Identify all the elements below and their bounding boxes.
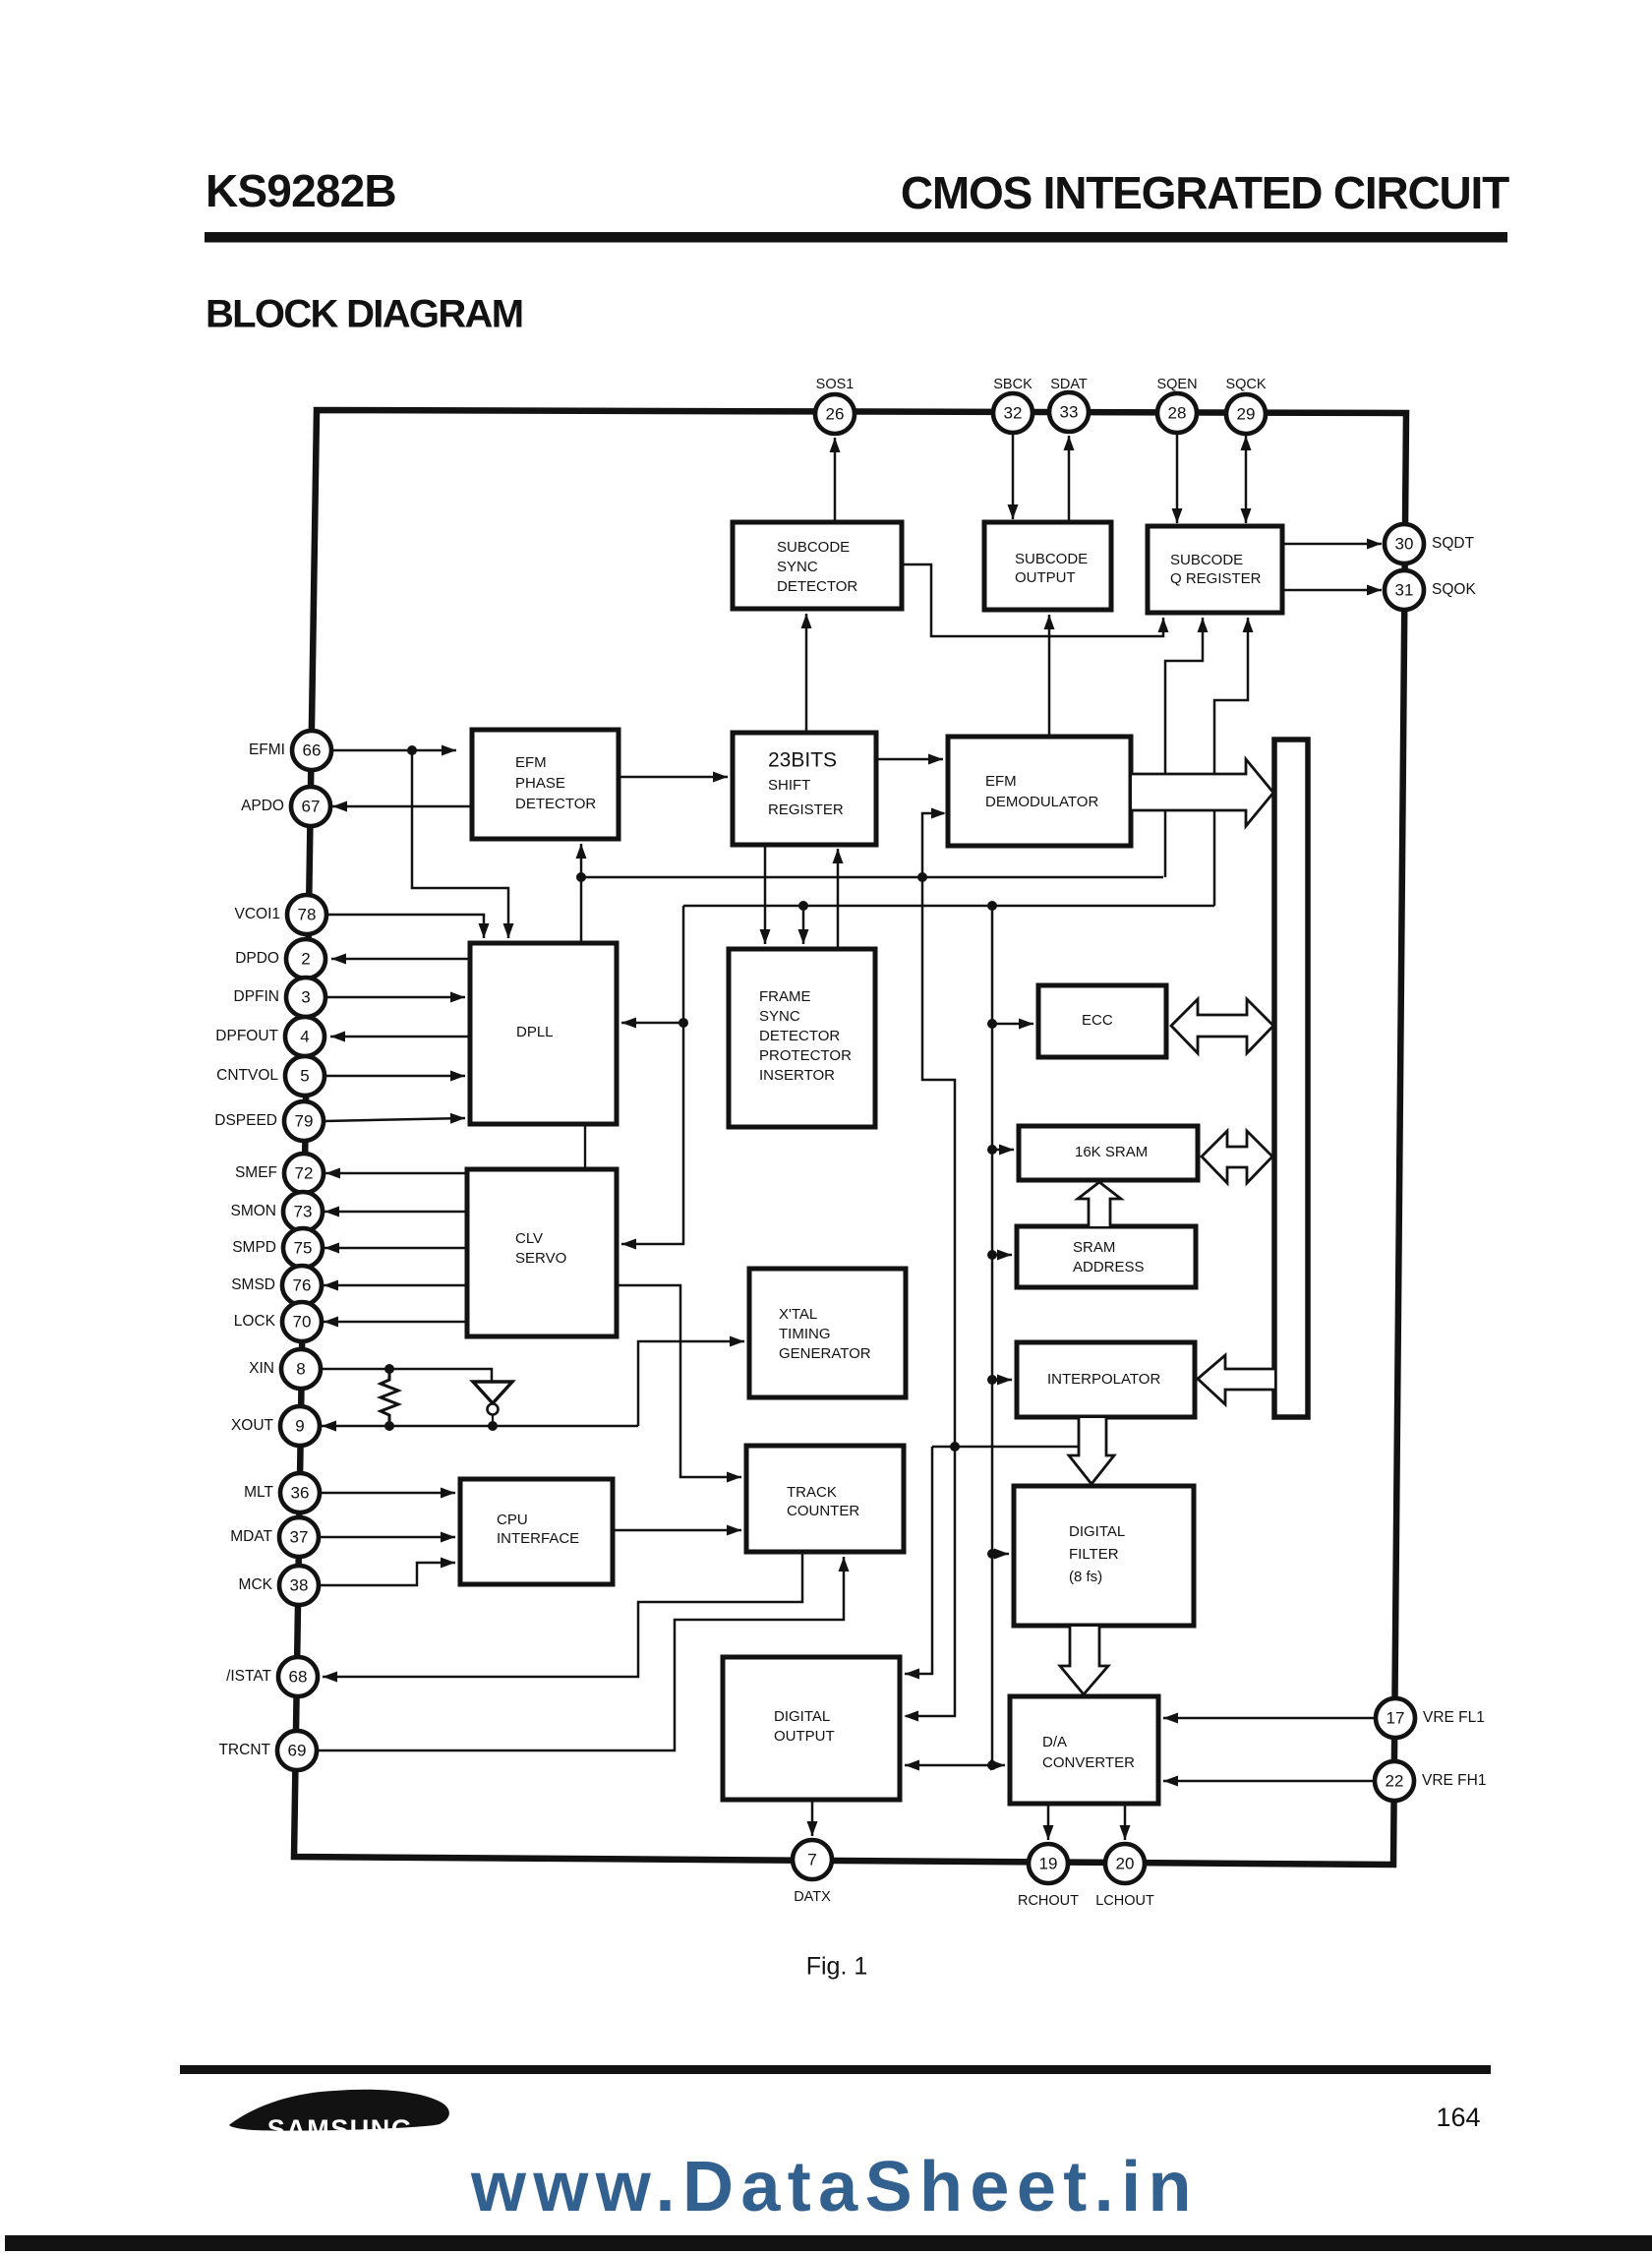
svg-text:4: 4 — [300, 1027, 309, 1045]
wire pin 5 CNTVOL to DPLL — [325, 1071, 465, 1082]
svg-text:XOUT: XOUT — [231, 1417, 274, 1434]
svg-text:VRE FL1: VRE FL1 — [1423, 1709, 1485, 1726]
svg-text:28: 28 — [1168, 403, 1187, 422]
pin 4 DPFOUT — [285, 1017, 324, 1056]
svg-text:(8 fs): (8 fs) — [1069, 1569, 1102, 1585]
wire net A horizontal (phase det / demod / Q reg) — [581, 872, 1163, 882]
wire net B to frame sync detector — [798, 906, 809, 944]
svg-text:CPU: CPU — [497, 1512, 528, 1528]
svg-text:DPLL: DPLL — [516, 1024, 554, 1040]
pin 26 SOS1 — [815, 394, 855, 434]
wire net B branch to DPLL right — [621, 1018, 683, 1029]
pin 29 SQCK — [1226, 394, 1266, 434]
open arrow: 16K SRAM to data bus (bidirectional) — [1202, 1131, 1272, 1183]
inverter U20 (crystal oscillator) — [473, 1382, 512, 1426]
svg-text:OUTPUT: OUTPUT — [774, 1728, 835, 1745]
svg-text:DPFOUT: DPFOUT — [215, 1028, 278, 1044]
wire net B horizontal (frame sync / sram column) — [683, 901, 1214, 911]
wire column to digital filter — [992, 1549, 1009, 1560]
svg-text:EFM: EFM — [985, 773, 1017, 790]
svg-text:DIGITAL: DIGITAL — [774, 1708, 830, 1725]
wire 23bits to frame sync detector — [760, 845, 771, 944]
pin 66 EFMI — [292, 731, 331, 770]
wire sram column vertical net — [987, 906, 997, 1770]
wire pin 22 VRE FH1 to D/A converter — [1163, 1776, 1374, 1787]
wire digital output to pin 7 DATX — [807, 1800, 818, 1836]
wire column to 16K SRAM — [992, 1145, 1014, 1156]
svg-text:SUBCODE: SUBCODE — [777, 539, 850, 556]
svg-text:23BITS: 23BITS — [768, 749, 837, 772]
block U4 EFM PHASE DETECTOR — [472, 730, 619, 839]
pin 8 XIN — [281, 1349, 321, 1389]
svg-text:SOS1: SOS1 — [816, 377, 855, 392]
svg-text:9: 9 — [295, 1416, 304, 1435]
svg-text:MLT: MLT — [244, 1484, 273, 1501]
svg-text:BLOCK DIAGRAM: BLOCK DIAGRAM — [206, 293, 522, 336]
svg-text:SDAT: SDAT — [1050, 377, 1088, 392]
svg-text:32: 32 — [1004, 403, 1023, 422]
pin 78 VCOI1 — [287, 895, 326, 934]
wire pin 36 MLT to CPU interface — [320, 1488, 455, 1499]
pin 2 DPDO — [286, 939, 325, 979]
svg-text:2: 2 — [301, 949, 310, 968]
wire bus node to Q register (via riser) — [1165, 618, 1209, 877]
wire D/A converter to pin 19 RCHOUT — [1043, 1804, 1054, 1840]
wire pin 79 DSPEED to DPLL — [324, 1113, 465, 1124]
wire EFMI branch to DPLL — [412, 750, 514, 938]
pin 3 DPFIN — [286, 978, 325, 1017]
block U18 DIGITAL FILTER (8 fs) — [1014, 1486, 1194, 1626]
wire 23bits shift register to EFM demodulator — [876, 754, 943, 765]
svg-text:68: 68 — [289, 1667, 308, 1686]
wire DPLL to pin 2 DPDO — [331, 954, 470, 965]
pin 9 XOUT — [280, 1406, 320, 1446]
pin 75 SMPD — [283, 1228, 323, 1268]
svg-text:Q REGISTER: Q REGISTER — [1170, 570, 1262, 587]
svg-text:KS9282B: KS9282B — [206, 165, 396, 216]
block U6 EFM DEMODULATOR — [948, 737, 1131, 846]
svg-text:73: 73 — [294, 1202, 313, 1220]
pin 70 LOCK — [282, 1302, 322, 1341]
svg-text:ADDRESS: ADDRESS — [1073, 1259, 1145, 1275]
pin 38 MCK — [279, 1566, 319, 1605]
block U2 SUBCODE OUTPUT — [984, 522, 1111, 610]
svg-text:CNTVOL: CNTVOL — [216, 1067, 278, 1084]
svg-text:17: 17 — [1386, 1708, 1405, 1727]
svg-text:PROTECTOR: PROTECTOR — [759, 1047, 852, 1064]
wire CLV servo output to track counter — [617, 1285, 741, 1483]
svg-text:DPFIN: DPFIN — [234, 988, 280, 1005]
pin 68 /ISTAT — [278, 1657, 318, 1696]
svg-text:DEMODULATOR: DEMODULATOR — [985, 794, 1098, 810]
block U8 FRAME SYNC DETECTOR PROTECTOR INSERTOR — [729, 949, 875, 1127]
wire CLV servo to pin 72 SMEF — [325, 1168, 467, 1179]
svg-text:SBCK: SBCK — [993, 377, 1032, 392]
wire SOS1: subcode sync detector to pin 26 — [830, 438, 841, 522]
svg-text:VRE FH1: VRE FH1 — [1422, 1772, 1486, 1789]
svg-text:SMON: SMON — [231, 1203, 277, 1219]
svg-text:GENERATOR: GENERATOR — [779, 1345, 871, 1362]
svg-text:8: 8 — [296, 1359, 305, 1378]
pin 67 APDO — [291, 787, 330, 826]
pin 17 VRE FL1 — [1376, 1698, 1415, 1738]
svg-text:SQEN: SQEN — [1156, 377, 1197, 392]
svg-text:DPDO: DPDO — [235, 950, 279, 967]
svg-text:www.DataSheet.in: www.DataSheet.in — [470, 2148, 1199, 2226]
svg-text:EFM: EFM — [515, 754, 547, 771]
svg-text:SRAM: SRAM — [1073, 1239, 1115, 1256]
svg-text:164: 164 — [1436, 2103, 1480, 2132]
open arrow: data bus to interpolator — [1198, 1355, 1274, 1404]
svg-text:ECC: ECC — [1082, 1012, 1113, 1029]
wire SDAT: subcode output to pin 33 — [1064, 436, 1075, 522]
svg-text:INSERTOR: INSERTOR — [759, 1067, 835, 1084]
wire frame-sync net to Q register — [1214, 618, 1254, 906]
svg-text:CONVERTER: CONVERTER — [1042, 1754, 1135, 1771]
svg-text:X'TAL: X'TAL — [779, 1306, 817, 1323]
wire CLV servo to pin 73 SMON — [324, 1207, 467, 1217]
svg-text:SHIFT: SHIFT — [768, 777, 810, 794]
svg-text:SMEF: SMEF — [235, 1164, 277, 1181]
block U7 DPLL — [470, 943, 617, 1124]
svg-text:D/A: D/A — [1042, 1734, 1067, 1750]
pin 36 MLT — [280, 1473, 320, 1513]
wire DPLL to pin 4 DPFOUT — [330, 1032, 470, 1042]
wire EFM phase detector to pin 67 APDO — [332, 801, 472, 812]
pin 31 SQOK — [1385, 570, 1424, 610]
svg-text:EFMI: EFMI — [249, 741, 285, 758]
wire SBCK: pin 32 to subcode output — [1008, 434, 1019, 519]
wire column to SRAM address — [992, 1250, 1012, 1261]
wire pin 37 MDAT to CPU interface — [319, 1532, 455, 1543]
svg-text:36: 36 — [291, 1483, 310, 1502]
svg-text:38: 38 — [290, 1575, 309, 1594]
wire pin 17 VRE FL1 to D/A converter — [1163, 1713, 1375, 1724]
wire net A riser: demod input / digital output feed — [906, 813, 960, 1716]
svg-text:SMPD: SMPD — [232, 1239, 276, 1256]
header rule — [205, 232, 1507, 243]
pin 72 SMEF — [284, 1154, 324, 1193]
wire column to digital output (lower) — [905, 1760, 992, 1771]
svg-text:30: 30 — [1395, 534, 1414, 553]
block U19 D/A CONVERTER — [1010, 1696, 1158, 1804]
open arrow: digital filter to D/A converter — [1060, 1627, 1108, 1694]
wire inverter output to pin 9 XOUT — [322, 1421, 638, 1432]
svg-text:INTERFACE: INTERFACE — [497, 1530, 579, 1547]
wire column to interpolator — [992, 1375, 1012, 1386]
svg-text:TRACK: TRACK — [787, 1484, 837, 1501]
svg-text:75: 75 — [294, 1238, 313, 1257]
wire oscillator to X'TAL timing generator — [638, 1336, 744, 1427]
svg-text:29: 29 — [1237, 404, 1256, 423]
wire pin 78 VCOI1 to DPLL — [326, 915, 490, 938]
svg-text:LCHOUT: LCHOUT — [1095, 1893, 1154, 1909]
svg-text:76: 76 — [293, 1275, 312, 1294]
pin 32 SBCK — [993, 393, 1032, 433]
svg-text:19: 19 — [1039, 1854, 1058, 1872]
Samsung logo (partially cropped) — [229, 2090, 449, 2144]
resistor R1 (crystal feedback) — [381, 1369, 398, 1426]
wire EFM phase detector to 23bits shift register — [619, 772, 728, 783]
svg-text:MDAT: MDAT — [230, 1528, 272, 1545]
pin 37 MDAT — [279, 1517, 319, 1557]
pin 28 SQEN — [1157, 393, 1197, 433]
svg-text:72: 72 — [295, 1163, 314, 1182]
wire sync detector to Q register — [902, 564, 1169, 636]
pin 30 SQDT — [1385, 524, 1424, 563]
svg-text:DETECTOR: DETECTOR — [515, 796, 596, 812]
open arrow: ECC to data bus (bidirectional) — [1171, 999, 1273, 1053]
wire SQOK: Q register to pin 31 — [1282, 585, 1382, 596]
wire CLV servo to pin 70 LOCK — [324, 1317, 467, 1328]
svg-text:PHASE: PHASE — [515, 775, 565, 792]
block U13 INTERPOLATOR — [1017, 1342, 1195, 1417]
svg-text:SUBCODE: SUBCODE — [1170, 552, 1243, 568]
block U11 16K SRAM — [1019, 1126, 1198, 1180]
wire feedback to EFM phase detector bottom — [576, 844, 587, 943]
svg-text:67: 67 — [302, 797, 321, 815]
wire track counter to pin 68 /ISTAT — [323, 1552, 802, 1683]
open arrow: interpolator to digital filter — [1069, 1418, 1114, 1484]
svg-text:SERVO: SERVO — [515, 1250, 566, 1267]
svg-text:SUBCODE: SUBCODE — [1015, 551, 1088, 567]
svg-text:CLV: CLV — [515, 1230, 543, 1247]
svg-text:XIN: XIN — [249, 1360, 274, 1377]
svg-text:20: 20 — [1116, 1854, 1135, 1872]
svg-text:7: 7 — [807, 1850, 816, 1868]
svg-text:SQDT: SQDT — [1432, 535, 1475, 552]
pin 79 DSPEED — [284, 1101, 324, 1141]
wire interpolator tap horizontal — [932, 1446, 1079, 1449]
svg-text:INTERPOLATOR: INTERPOLATOR — [1047, 1371, 1160, 1388]
svg-text:78: 78 — [298, 905, 317, 923]
block U3 SUBCODE Q REGISTER — [1148, 526, 1282, 613]
svg-text:SYNC: SYNC — [759, 1008, 800, 1025]
wire DPLL to CLV servo — [584, 1124, 586, 1169]
svg-text:SMSD: SMSD — [231, 1276, 275, 1293]
wire SQEN: pin 28 to subcode Q register — [1172, 434, 1183, 523]
svg-text:70: 70 — [293, 1312, 312, 1331]
open arrow: SRAM address to 16K SRAM — [1078, 1182, 1121, 1226]
wire column to D/A converter — [990, 1760, 1005, 1771]
footer rule — [180, 2065, 1491, 2074]
open arrow: EFM demodulator to data bus — [1132, 759, 1273, 826]
data bus bar — [1274, 740, 1308, 1417]
wire CLV servo to pin 76 SMSD — [324, 1280, 467, 1291]
svg-text:3: 3 — [301, 987, 310, 1006]
svg-text:COUNTER: COUNTER — [787, 1503, 859, 1519]
svg-text:Fig. 1: Fig. 1 — [806, 1953, 868, 1981]
svg-text:RCHOUT: RCHOUT — [1018, 1893, 1079, 1909]
wire CLV servo to pin 75 SMPD — [324, 1243, 467, 1254]
wire pin 38 MCK to CPU interface — [319, 1558, 455, 1586]
svg-text:LOCK: LOCK — [234, 1313, 276, 1330]
block U15 TRACK COUNTER — [746, 1446, 904, 1552]
bottom black bar — [5, 2235, 1652, 2251]
wire D/A converter to pin 20 LCHOUT — [1120, 1804, 1131, 1840]
svg-text:SYNC: SYNC — [777, 559, 818, 575]
svg-text:26: 26 — [826, 404, 845, 423]
block U10 ECC — [1038, 985, 1166, 1057]
svg-text:69: 69 — [288, 1741, 307, 1759]
svg-text:31: 31 — [1395, 580, 1414, 599]
svg-text:16K SRAM: 16K SRAM — [1075, 1144, 1148, 1160]
svg-text:MCK: MCK — [239, 1576, 273, 1593]
wire net B riser to CLV servo — [621, 906, 688, 1250]
svg-text:APDO: APDO — [241, 798, 284, 814]
block U1 SUBCODE SYNC DETECTOR — [733, 522, 902, 609]
svg-text:33: 33 — [1060, 402, 1079, 421]
pin 7 DATX — [793, 1840, 832, 1879]
pin 33 SDAT — [1049, 392, 1089, 432]
svg-text:OUTPUT: OUTPUT — [1015, 569, 1076, 586]
pin 69 TRCNT — [277, 1731, 317, 1770]
svg-text:79: 79 — [295, 1111, 314, 1130]
svg-text:37: 37 — [290, 1527, 309, 1546]
wire CPU interface to track counter — [613, 1525, 741, 1536]
svg-text:DIGITAL: DIGITAL — [1069, 1523, 1125, 1540]
svg-text:TIMING: TIMING — [779, 1326, 831, 1342]
svg-text:CMOS INTEGRATED CIRCUIT: CMOS INTEGRATED CIRCUIT — [901, 167, 1509, 218]
svg-text:5: 5 — [300, 1066, 309, 1085]
block U9 CLV SERVO — [467, 1169, 617, 1336]
IC outer frame — [294, 410, 1406, 1865]
wire EFM demodulator to subcode output — [1044, 615, 1055, 737]
wire pin 3 DPFIN to DPLL — [326, 992, 465, 1003]
svg-text:VCOI1: VCOI1 — [234, 906, 280, 922]
wire SQCK: pin 29 to subcode Q register (bidirectional) — [1241, 436, 1252, 523]
svg-text:REGISTER: REGISTER — [768, 801, 844, 818]
svg-text:FILTER: FILTER — [1069, 1546, 1119, 1563]
svg-text:66: 66 — [303, 741, 322, 759]
block U5 23BITS SHIFT REGISTER — [733, 733, 876, 845]
wire tap to digital output (upper) — [905, 1447, 932, 1680]
block U17 DIGITAL OUTPUT — [723, 1657, 900, 1800]
wire pin 69 TRCNT to track counter — [317, 1557, 850, 1750]
svg-text:DSPEED: DSPEED — [214, 1112, 277, 1129]
svg-text:DETECTOR: DETECTOR — [759, 1028, 840, 1044]
pin 19 RCHOUT — [1029, 1844, 1068, 1883]
pin 73 SMON — [283, 1192, 323, 1231]
pin 20 LCHOUT — [1105, 1844, 1145, 1883]
block U14 X'TAL TIMING GENERATOR — [749, 1269, 906, 1397]
wire column to ECC — [992, 1019, 1033, 1030]
svg-text:/ISTAT: /ISTAT — [226, 1668, 271, 1685]
svg-text:DATX: DATX — [794, 1889, 831, 1905]
svg-text:SAMSUNG: SAMSUNG — [267, 2114, 414, 2144]
wire pin 8 XIN to inverter input — [321, 1364, 492, 1382]
svg-text:FRAME: FRAME — [759, 988, 811, 1005]
wire 23bits shift register to subcode sync detector — [801, 614, 812, 733]
pin 22 VRE FH1 — [1375, 1761, 1414, 1801]
svg-text:SQCK: SQCK — [1225, 377, 1266, 392]
pin 76 SMSD — [282, 1266, 322, 1305]
wire pin 66 EFMI to EFM phase detector — [331, 745, 456, 756]
pin 5 CNTVOL — [285, 1056, 324, 1096]
wire SQDT: Q register to pin 30 — [1282, 539, 1382, 550]
svg-text:TRCNT: TRCNT — [218, 1742, 270, 1758]
block U12 SRAM ADDRESS — [1017, 1226, 1196, 1287]
wire frame sync detector to 23bits — [833, 849, 844, 949]
svg-text:SQOK: SQOK — [1432, 581, 1476, 598]
svg-text:DETECTOR: DETECTOR — [777, 578, 857, 595]
block U16 CPU INTERFACE — [460, 1479, 613, 1584]
svg-text:22: 22 — [1386, 1771, 1404, 1790]
